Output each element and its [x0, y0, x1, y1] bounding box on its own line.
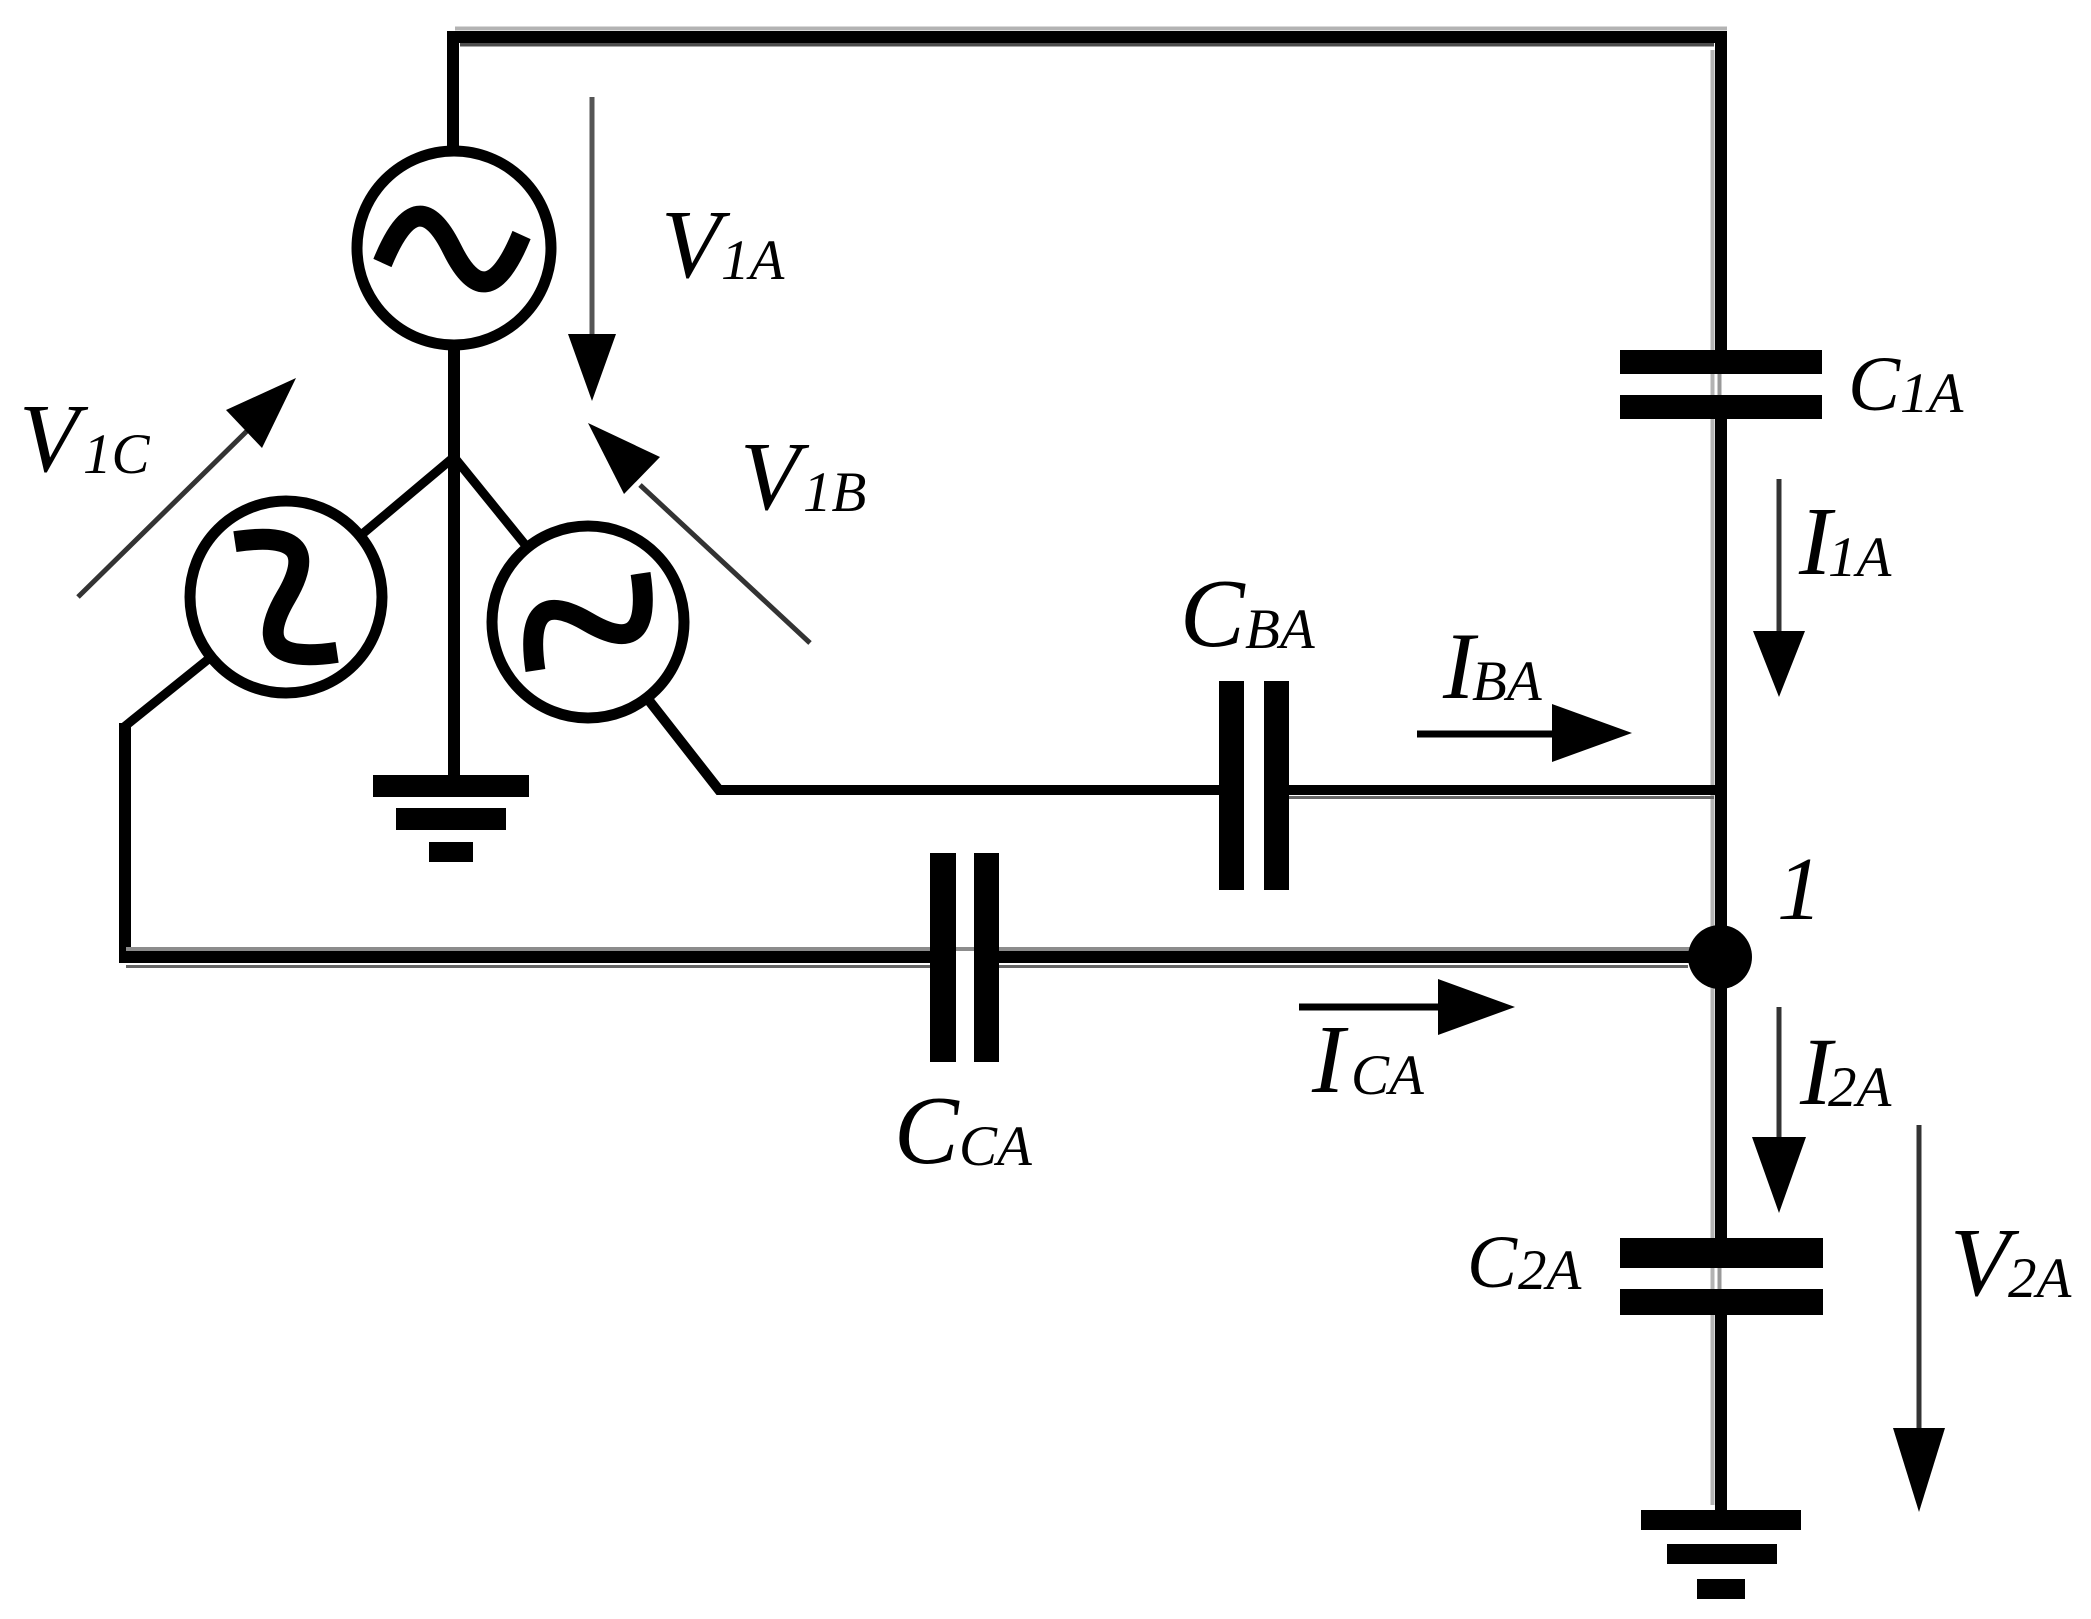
source V1C sine symbol: [219, 517, 353, 677]
label ICA: [1311, 1006, 1425, 1114]
wire gray trace in C2A gap: [1718, 1266, 1722, 1291]
wire star to source V1C: [360, 457, 454, 536]
arrow V1C (voltage reference, up-right): [78, 378, 296, 597]
label I2A: [1799, 1018, 1893, 1125]
wire top rail: [455, 27, 1727, 31]
svg-text:V: V: [740, 423, 810, 531]
wire neutral vertical (source V1A bottom to ground): [448, 344, 460, 776]
label V2A: [1950, 1209, 2073, 1317]
ground (bottom right): [1641, 1510, 1801, 1599]
wire star to source V1B: [454, 457, 527, 547]
svg-text:I: I: [1311, 1006, 1349, 1114]
wire right rail (C1A to node 1 to C2A): [1715, 417, 1727, 1240]
arrow I1A (current, down): [1753, 479, 1805, 697]
svg-text:2A: 2A: [1828, 1056, 1893, 1119]
svg-text:BA: BA: [1472, 650, 1543, 713]
svg-text:1C: 1C: [83, 423, 151, 486]
svg-text:1A: 1A: [721, 229, 786, 292]
label I1A: [1798, 488, 1893, 596]
label V1C: [19, 385, 151, 493]
wire gray trace in C1A gap: [1718, 372, 1722, 397]
label IBA: [1442, 613, 1543, 719]
wire phase B branch (source V1B to capacitor CBA): [647, 698, 1221, 790]
svg-text:1A: 1A: [1828, 526, 1893, 589]
wire capacitor CBA to right rail: [1287, 785, 1725, 795]
capacitor C2A: [1620, 1238, 1823, 1315]
svg-text:1A: 1A: [1900, 362, 1965, 425]
AC source V1A (top): [357, 151, 551, 345]
arrow IBA (current, right): [1417, 704, 1632, 762]
AC source V1C (left): [190, 501, 382, 693]
label CBA: [1180, 560, 1316, 667]
svg-text:CA: CA: [959, 1115, 1033, 1178]
svg-text:CA: CA: [1351, 1044, 1425, 1107]
arrow V2A (voltage reference, down): [1893, 1125, 1945, 1512]
svg-text:2A: 2A: [1518, 1239, 1583, 1302]
capacitor CCA: [930, 853, 999, 1062]
arrow I2A (current, down): [1752, 1007, 1806, 1213]
svg-text:V: V: [19, 385, 89, 493]
capacitor C1A: [1620, 350, 1822, 419]
source V1B sine symbol: [512, 558, 664, 686]
label V1B: [740, 423, 866, 531]
wire capacitor CCA to node 1: [126, 947, 1690, 951]
label CCA: [894, 1077, 1033, 1184]
wire C2A to ground: [1715, 1313, 1727, 1514]
arrow V1B (voltage reference, up-left): [588, 423, 810, 643]
svg-text:2A: 2A: [2008, 1247, 2073, 1310]
node 1 junction dot: [1688, 925, 1752, 989]
svg-text:C: C: [1180, 560, 1246, 667]
ground (neutral, middle): [373, 775, 529, 862]
label C1A: [1848, 340, 1965, 427]
wire phase C branch (source V1C to capacitor CCA): [124, 657, 211, 727]
capacitor CBA: [1219, 681, 1289, 890]
svg-text:C: C: [894, 1077, 960, 1184]
svg-text:BA: BA: [1245, 598, 1316, 661]
svg-text:1: 1: [1777, 840, 1822, 939]
label C2A: [1467, 1221, 1583, 1304]
source V1A sine symbol: [382, 216, 521, 282]
arrow ICA (current, right): [1299, 979, 1515, 1035]
svg-text:1B: 1B: [803, 461, 866, 524]
label V1A: [661, 191, 786, 299]
AC source V1B (right): [492, 526, 684, 718]
svg-text:C: C: [1848, 340, 1901, 427]
arrow V1A (voltage reference, down): [568, 97, 616, 401]
svg-text:C: C: [1467, 1221, 1518, 1304]
